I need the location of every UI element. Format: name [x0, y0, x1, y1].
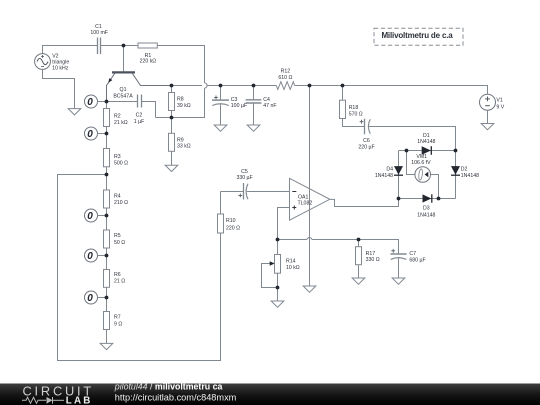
svg-text:1 µF: 1 µF [134, 119, 144, 125]
svg-text:500 Ω: 500 Ω [114, 161, 128, 167]
svg-text:R12: R12 [281, 69, 291, 75]
svg-text:39 kΩ: 39 kΩ [177, 103, 191, 109]
svg-text:0: 0 [87, 251, 93, 262]
svg-text:1N4148: 1N4148 [417, 139, 435, 145]
svg-text:R10: R10 [226, 218, 236, 224]
svg-text:LAB: LAB [66, 396, 93, 405]
svg-text:1N4148: 1N4148 [461, 173, 479, 179]
svg-text:680 µF: 680 µF [409, 257, 425, 263]
svg-text:330 µF: 330 µF [236, 175, 252, 181]
svg-text:pilotul44 / milivoltmetru ca: pilotul44 / milivoltmetru ca [114, 382, 223, 392]
svg-text:V2: V2 [52, 53, 58, 59]
svg-text:R6: R6 [114, 272, 121, 278]
svg-text:220 Ω: 220 Ω [226, 226, 240, 232]
svg-text:9 V: 9 V [496, 104, 504, 110]
svg-text:R7: R7 [114, 314, 121, 320]
svg-text:1N4148: 1N4148 [417, 213, 435, 219]
svg-text:R5: R5 [114, 233, 121, 239]
svg-text:R2: R2 [114, 113, 121, 119]
svg-text:R14: R14 [286, 259, 296, 265]
svg-text:21 Ω: 21 Ω [114, 279, 125, 285]
svg-text:106.6 fV: 106.6 fV [411, 160, 431, 166]
svg-text:21 kΩ: 21 kΩ [114, 120, 128, 126]
svg-text:VM1: VM1 [416, 154, 427, 160]
svg-text:10 kHz: 10 kHz [52, 66, 69, 72]
svg-text:R9: R9 [177, 137, 184, 143]
svg-text:D2: D2 [461, 166, 468, 172]
svg-text:C1: C1 [95, 24, 102, 30]
svg-text:10 kΩ: 10 kΩ [286, 265, 300, 271]
svg-text:0: 0 [87, 129, 93, 140]
svg-text:R8: R8 [177, 97, 184, 103]
svg-text:http://circuitlab.com/c848mxm: http://circuitlab.com/c848mxm [115, 392, 237, 402]
svg-text:330 Ω: 330 Ω [366, 257, 380, 263]
svg-text:0: 0 [87, 293, 93, 304]
svg-text:D3: D3 [423, 206, 430, 212]
svg-text:100 µF: 100 µF [231, 103, 247, 109]
svg-text:R17: R17 [366, 251, 376, 257]
svg-text:0: 0 [87, 97, 93, 108]
svg-text:Milivoltmetru de c.a: Milivoltmetru de c.a [381, 31, 453, 40]
svg-text:610 Ω: 610 Ω [278, 75, 292, 81]
svg-text:9 Ω: 9 Ω [114, 321, 122, 327]
svg-text:D1: D1 [423, 133, 430, 139]
svg-text:R18: R18 [349, 105, 359, 111]
svg-text:0: 0 [87, 211, 93, 222]
svg-text:C2: C2 [136, 113, 143, 119]
svg-text:Q1: Q1 [120, 87, 127, 93]
svg-text:220 µF: 220 µF [358, 144, 374, 150]
svg-text:C7: C7 [409, 251, 416, 257]
svg-text:C6: C6 [363, 138, 370, 144]
svg-text:TL082: TL082 [298, 201, 313, 207]
svg-text:R3: R3 [114, 154, 121, 160]
svg-text:33 kΩ: 33 kΩ [177, 144, 191, 150]
svg-text:R4: R4 [114, 193, 121, 199]
svg-text:570 Ω: 570 Ω [349, 112, 363, 118]
svg-text:V1: V1 [496, 98, 502, 104]
svg-text:100 mF: 100 mF [90, 30, 108, 36]
svg-text:220 kΩ: 220 kΩ [140, 58, 157, 64]
svg-text:210 Ω: 210 Ω [114, 200, 128, 206]
svg-text:50 Ω: 50 Ω [114, 240, 125, 246]
svg-text:1N4148: 1N4148 [375, 173, 393, 179]
svg-text:47 nF: 47 nF [263, 103, 276, 109]
svg-text:BC547A: BC547A [113, 93, 133, 99]
svg-text:D4: D4 [386, 166, 393, 172]
